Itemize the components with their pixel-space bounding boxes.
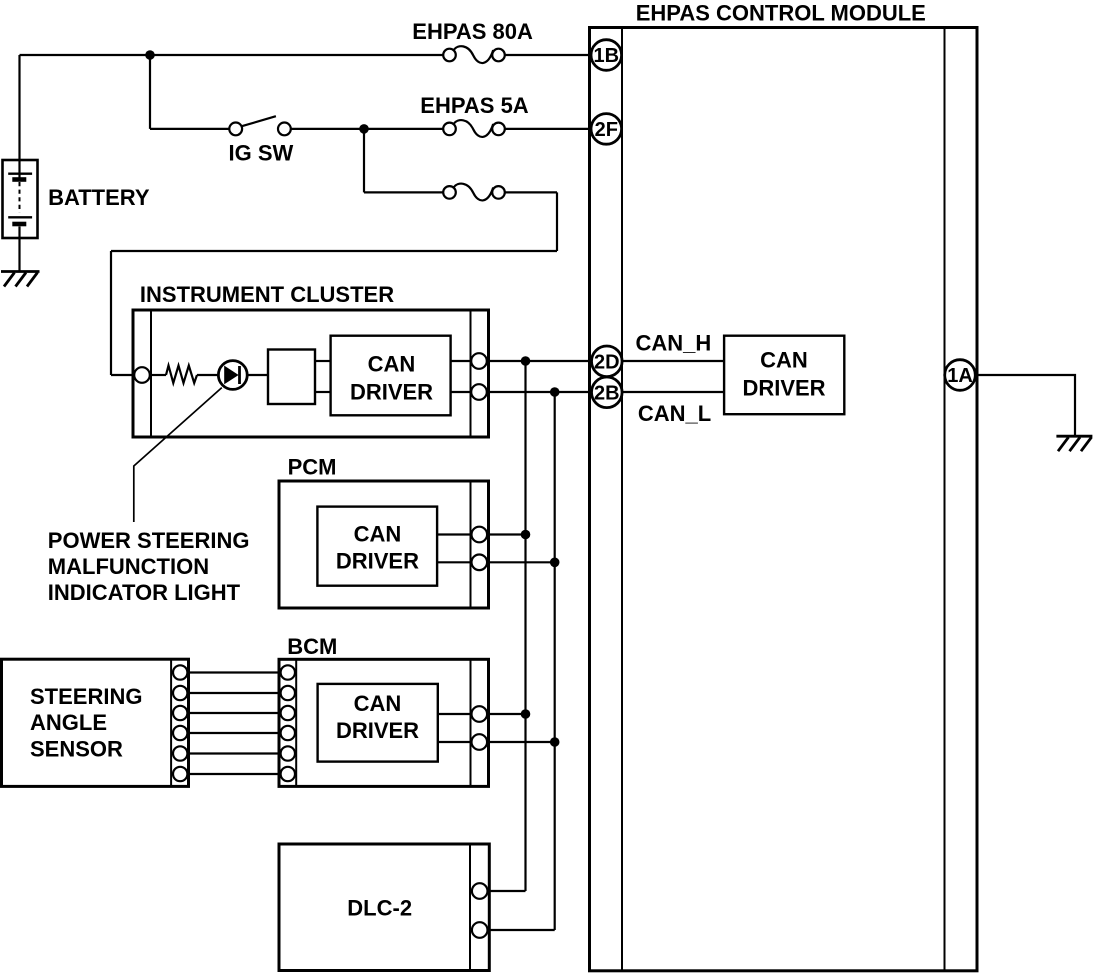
BCM box [279, 659, 489, 786]
wire steering angle sensor to BCM line 1 [189, 671, 281, 673]
CAN driver box (BCM) [318, 684, 438, 762]
svg-text:CAN: CAN [368, 352, 416, 377]
steering angle sensor box [2, 659, 189, 786]
wire LED to interface box [247, 374, 268, 376]
switch IG SW [229, 116, 290, 135]
wire third fuse to corner [505, 191, 558, 193]
terminal circle BCM CAN_L [472, 734, 488, 750]
EHPAS control module box [590, 28, 978, 971]
svg-text:STEERING: STEERING [30, 684, 142, 709]
terminal circles steering angle sensor [173, 665, 187, 781]
svg-text:2D: 2D [594, 351, 620, 373]
svg-text:DRIVER: DRIVER [336, 548, 419, 573]
junction dot BCM CAN_H to bus [521, 709, 531, 719]
junction dot CAN_H bus top [521, 356, 531, 366]
svg-text:BATTERY: BATTERY [48, 185, 150, 210]
wire DLC-2 lower terminal to CAN_L bus [470, 929, 555, 931]
wire cluster CAN driver CAN_H out to module pin 2D [451, 360, 592, 362]
pin 2D [592, 346, 623, 377]
PCM box [279, 481, 489, 608]
terminal circle BCM CAN_H [472, 706, 488, 722]
CAN driver box (module) [724, 336, 844, 415]
instrument cluster box [133, 310, 489, 437]
svg-text:IG SW: IG SW [229, 140, 294, 165]
fuse (meter) [443, 184, 505, 201]
svg-text:PCM: PCM [288, 454, 337, 479]
CAN driver box (cluster) [331, 336, 451, 416]
svg-text:SENSOR: SENSOR [30, 737, 123, 762]
interface box (cluster) [268, 350, 315, 405]
wire steering angle sensor to BCM line 3 [189, 712, 281, 714]
wire PCM CAN driver CAN_L out [437, 561, 555, 563]
battery BATTERY [3, 160, 38, 238]
junction dot CAN_L bus top [550, 387, 560, 397]
svg-text:DLC-2: DLC-2 [347, 895, 412, 920]
svg-text:2F: 2F [595, 119, 618, 141]
wire resistor to indicator LED [197, 374, 219, 376]
terminal circle PCM CAN_H [472, 527, 488, 543]
terminal circle cluster left [134, 367, 150, 383]
junction dot at B+ split [145, 50, 155, 60]
wire B+ feed y=55 to fuse EHPAS 80A [20, 54, 444, 56]
wire IG junction drop to meter fuse (vertical) [363, 129, 365, 193]
resistor (cluster) [166, 366, 197, 384]
wire down left side to instrument cluster (vertical) [110, 251, 112, 375]
junction dot PCM CAN_L to bus [550, 558, 560, 568]
wire to IG SW left contact [150, 128, 230, 130]
svg-text:CAN: CAN [354, 521, 402, 546]
junction dot BCM CAN_L to bus [550, 737, 560, 747]
leader line to indicator label [134, 388, 222, 522]
svg-text:CAN: CAN [354, 691, 402, 716]
svg-text:BCM: BCM [287, 634, 337, 659]
ground (module 1A) [1056, 436, 1092, 451]
svg-text:INSTRUMENT CLUSTER: INSTRUMENT CLUSTER [140, 282, 394, 307]
svg-text:ANGLE: ANGLE [30, 710, 107, 735]
wire DLC-2 upper terminal to CAN_H bus [470, 890, 526, 892]
svg-text:MALFUNCTION: MALFUNCTION [48, 554, 209, 579]
pin 2B [592, 377, 623, 408]
svg-text:CAN: CAN [760, 348, 808, 373]
wire PCM CAN driver CAN_H out [437, 533, 525, 535]
fuse EHPAS 5A [443, 120, 505, 137]
wire CAN_L bus (vertical) [554, 392, 556, 930]
wire BCM CAN driver CAN_L out [438, 741, 555, 743]
svg-text:EHPAS 80A: EHPAS 80A [412, 19, 533, 44]
terminal circle cluster CAN_L out [471, 384, 487, 400]
svg-text:1B: 1B [594, 45, 620, 67]
pin 2F [591, 114, 622, 145]
wire battery negative to ground [18, 238, 20, 272]
svg-text:DRIVER: DRIVER [742, 375, 825, 400]
svg-text:2B: 2B [594, 382, 620, 404]
terminal circle PCM CAN_L [472, 555, 488, 571]
wire steering angle sensor to BCM line 2 [189, 692, 281, 694]
ground (battery) [1, 272, 40, 287]
terminal circle cluster CAN_H out [471, 353, 487, 369]
wire module pin 1A to ground [977, 375, 1075, 436]
pin 1A [945, 360, 976, 391]
wire junction drop to IG SW (vertical) [149, 55, 151, 129]
wire IG SW right contact to junction [291, 128, 443, 130]
wire steering angle sensor to BCM line 4 [189, 732, 281, 734]
wire module pin 2D to internal CAN driver [622, 360, 724, 362]
svg-text:EHPAS CONTROL MODULE: EHPAS CONTROL MODULE [636, 1, 926, 26]
wire cluster CAN driver CAN_L out to module pin 2B [451, 391, 592, 393]
wire fuse EHPAS 5A to module pin 2F [505, 128, 593, 130]
wire interface box to CAN driver upper [315, 360, 331, 362]
wire fuse EHPAS 80A to module pin 1B [505, 54, 593, 56]
wire module pin 2B to internal CAN driver [622, 391, 724, 393]
svg-text:CAN_H: CAN_H [636, 330, 712, 355]
CAN driver box (PCM) [317, 507, 437, 586]
wire corner down (vertical) [556, 192, 558, 251]
DLC-2 box [279, 844, 489, 971]
wire long horizontal y=251 [111, 250, 557, 252]
terminal circles BCM left [281, 665, 295, 781]
svg-text:EHPAS 5A: EHPAS 5A [420, 93, 529, 118]
wire cluster terminal to resistor [150, 374, 166, 376]
wire steering angle sensor to BCM line 6 [189, 773, 281, 775]
LED power steering malfunction indicator [218, 361, 247, 390]
wire CAN_H bus (vertical) [524, 361, 526, 891]
wire battery positive to B+ rail (vertical) [18, 55, 20, 161]
wire to third fuse [364, 191, 443, 193]
wire steering angle sensor to BCM line 5 [189, 752, 281, 754]
svg-text:POWER STEERING: POWER STEERING [48, 528, 250, 553]
svg-text:1A: 1A [947, 365, 973, 387]
junction dot after IG SW [359, 124, 369, 134]
wire into instrument cluster terminal [111, 374, 142, 376]
svg-text:DRIVER: DRIVER [350, 380, 433, 405]
svg-text:CAN_L: CAN_L [638, 401, 711, 426]
terminal circle DLC-2 lower [472, 922, 488, 938]
terminal circle DLC-2 upper [472, 883, 488, 899]
wire BCM CAN driver CAN_H out [438, 713, 526, 715]
svg-text:INDICATOR LIGHT: INDICATOR LIGHT [48, 580, 241, 605]
wire interface box to CAN driver lower [315, 391, 331, 393]
junction dot PCM CAN_H to bus [521, 530, 531, 540]
pin 1B [591, 40, 622, 71]
svg-text:DRIVER: DRIVER [336, 718, 419, 743]
fuse EHPAS 80A [443, 46, 505, 63]
